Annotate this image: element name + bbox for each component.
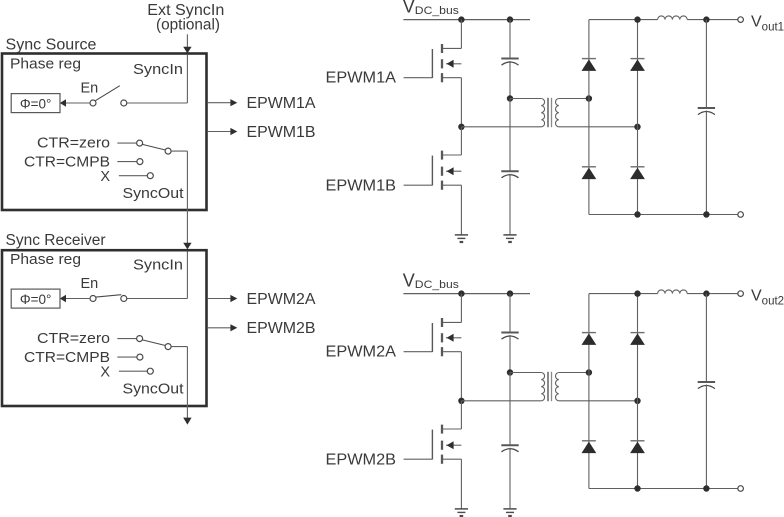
arrowhead EPWM1B (230, 128, 237, 135)
wire bridge left leg (588, 294, 590, 489)
terminal output negative (738, 212, 744, 218)
wire bridge right leg (637, 294, 639, 489)
channel dash body (441, 333, 443, 342)
wire Q-A source to center node (460, 78, 462, 127)
wire bridge right leg (637, 20, 639, 215)
wire Ext SyncIn drop (186, 34, 188, 48)
transformer T secondary winding (556, 373, 559, 401)
drain lead (443, 47, 461, 49)
svg-text:CTR=CMPB: CTR=CMPB (24, 154, 110, 170)
body-diode arrow (447, 334, 454, 342)
phase register box (11, 289, 60, 308)
wire center node to Q-B drain (460, 127, 462, 155)
node bottom rail / right leg (634, 211, 640, 217)
capacitor output filter (698, 107, 715, 109)
arrowhead SyncOut (to next) (183, 418, 191, 425)
node rail / high-side drain (458, 290, 464, 296)
inductor L output filter (658, 16, 688, 20)
svg-text:SyncOut: SyncOut (123, 381, 184, 397)
diode D3 (582, 440, 596, 442)
wire rail to divider cap C-top (509, 294, 511, 333)
wire inductor to output terminal (687, 293, 738, 295)
svg-text:Sync Receiver: Sync Receiver (6, 232, 106, 249)
body-diode arrow (447, 167, 454, 175)
transformer T secondary winding (556, 99, 559, 127)
svg-text:(optional): (optional) (156, 17, 220, 34)
channel dash source (441, 347, 443, 356)
wire output cap upper (705, 294, 707, 382)
svg-text:CTR=zero: CTR=zero (37, 331, 110, 347)
switch En pole contact (90, 100, 96, 106)
ground (transistor leg) (455, 234, 468, 236)
channel dash source (441, 455, 443, 464)
svg-text:X: X (100, 169, 110, 185)
contact X (147, 173, 153, 179)
diode D4 (631, 166, 645, 168)
svg-text:Vout2: Vout2 (751, 287, 784, 307)
diode D4 (631, 440, 645, 442)
channel dash body (441, 59, 443, 68)
wire CTR=zero lead (117, 338, 136, 340)
wire secondary top lead (559, 372, 589, 374)
switch SyncOut blade (on CTR=zero) (142, 144, 165, 150)
svg-text:EPWM1B: EPWM1B (326, 178, 397, 195)
wire output cap lower (705, 385, 707, 489)
svg-text:EPWM1A: EPWM1A (247, 95, 317, 112)
channel dash source (441, 181, 443, 190)
node secondary bottom / bridge right leg (634, 124, 640, 130)
wire Q-A source to center node (460, 352, 462, 401)
svg-text:Φ=0°: Φ=0° (20, 96, 52, 111)
wire EPWM2A gate lead (404, 351, 433, 353)
diode D3 (582, 166, 596, 168)
wire center node to Q-B drain (460, 401, 462, 429)
svg-text:En: En (81, 276, 99, 292)
svg-text:CTR=zero: CTR=zero (37, 136, 110, 152)
body-diode arrow (447, 441, 454, 449)
wire EPWM1B output (208, 131, 231, 133)
channel dash drain (441, 44, 443, 53)
wire SyncOut common lead (171, 346, 187, 348)
phase register box (11, 94, 60, 113)
node top rail / right leg (634, 290, 640, 296)
diode D1 (582, 332, 596, 334)
switch En fixed contact (121, 100, 127, 106)
contact CTR=CMPB (137, 159, 143, 165)
svg-text:EPWM1B: EPWM1B (247, 124, 316, 141)
wire divider caps midpoint upper (509, 61, 511, 99)
arrowhead into phase register (60, 99, 66, 106)
ground (transistor leg) (455, 508, 468, 510)
wire divider midpoint to lower cap (509, 99, 511, 172)
arrowhead Ext SyncIn into Sync Source (183, 47, 191, 54)
wire bridge left leg (588, 20, 590, 215)
switch En blade (closed) (96, 295, 121, 297)
wire output cap upper (705, 20, 707, 108)
svg-text:EPWM1A: EPWM1A (326, 70, 397, 87)
gate bar (431, 430, 433, 460)
transformer T primary winding (541, 373, 544, 401)
body lead (446, 170, 461, 172)
wire lower cap to ground (509, 174, 511, 235)
node bottom rail / output cap (703, 211, 709, 217)
wire SyncIn vertical (186, 55, 188, 103)
wire divider caps midpoint upper (509, 335, 511, 373)
wire primary top lead (510, 372, 541, 374)
switch SyncOut blade (on CTR=zero) (142, 340, 165, 346)
contact X (147, 368, 153, 374)
arrowhead EPWM2A (230, 295, 237, 302)
capacitor output filter (698, 381, 715, 383)
wire CTR=zero lead (117, 142, 136, 144)
wire EPWM2B output (208, 327, 231, 329)
terminal output positive (738, 17, 744, 23)
contact CTR=zero (137, 140, 143, 146)
svg-text:Phase reg: Phase reg (10, 56, 81, 72)
wire primary bottom lead (461, 400, 541, 402)
wire EPWM1A output (208, 102, 231, 104)
svg-text:Vout1: Vout1 (751, 13, 784, 33)
wire output cap lower (705, 111, 707, 215)
transformer core (547, 98, 549, 127)
contact SyncOut common (165, 148, 171, 154)
source lead (443, 351, 461, 353)
inductor L output filter (658, 290, 688, 294)
wire VDC bus rail (403, 19, 530, 21)
wire Q-B source to ground (460, 459, 462, 509)
wire bridge bottom rail (589, 214, 738, 216)
gate bar (431, 49, 433, 78)
svg-text:CTR=CMPB: CTR=CMPB (24, 350, 110, 366)
wire primary top lead (510, 98, 541, 100)
source lead (443, 77, 461, 79)
wire bridge top rail (589, 293, 658, 295)
transformer T primary winding (541, 99, 544, 127)
node divider midpoint / primary top (507, 369, 513, 375)
channel dash source (441, 73, 443, 82)
wire secondary bottom lead (559, 400, 638, 402)
drain lead (443, 154, 461, 156)
node secondary top / bridge left leg (586, 95, 592, 101)
diode D1 (582, 58, 596, 60)
wire En switch to phase register (66, 298, 91, 300)
node rail / high-side drain (458, 16, 464, 22)
wire Sync Receiver SyncOut down (186, 347, 188, 419)
svg-text:VDC_bus: VDC_bus (403, 0, 460, 17)
body-diode arrow (447, 60, 454, 68)
transformer core (547, 372, 549, 401)
svg-text:SyncIn: SyncIn (133, 258, 183, 274)
arrowhead SyncIn into Sync Receiver (183, 243, 191, 250)
terminal output negative (738, 486, 744, 492)
node output cap top (703, 290, 709, 296)
node rail / divider cap (507, 290, 513, 296)
body lead (446, 63, 461, 65)
svg-text:X: X (100, 365, 110, 381)
Sync Receiver block outline (2, 250, 207, 406)
svg-text:VDC_bus: VDC_bus (403, 271, 460, 292)
capacitor divider top (501, 332, 518, 334)
channel dash drain (441, 151, 443, 160)
node output cap top (703, 16, 709, 22)
wire CTR=CMPB lead (117, 161, 136, 163)
Sync Source block outline (2, 54, 207, 211)
diode D2 (631, 332, 645, 334)
wire SyncIn horizontal to switch (127, 298, 187, 300)
wire CTR=CMPB lead (117, 356, 136, 358)
wire X lead (119, 370, 147, 372)
switch En pole contact (90, 296, 96, 302)
wire SyncOut common lead (171, 150, 187, 152)
contact CTR=zero (137, 336, 143, 342)
capacitor divider bottom (501, 444, 518, 446)
wire rail to Q-A drain (460, 20, 462, 49)
wire inductor to output terminal (687, 19, 738, 21)
gate bar (431, 156, 433, 186)
channel dash drain (441, 425, 443, 434)
wire divider midpoint to lower cap (509, 373, 511, 446)
wire EPWM1B gate lead (404, 184, 433, 186)
source lead (443, 184, 461, 186)
svg-text:EPWM2A: EPWM2A (326, 344, 397, 361)
wire EPWM2A output (208, 298, 231, 300)
node primary return / Q-A source / Q-B drain (458, 124, 464, 130)
terminal output positive (738, 291, 744, 297)
node divider midpoint / primary top (507, 95, 513, 101)
svg-text:Phase reg: Phase reg (10, 252, 81, 268)
wire X lead (119, 175, 147, 177)
node top rail / right leg (634, 16, 640, 22)
wire En switch to phase register (66, 102, 91, 104)
ground (capacitor leg) (503, 234, 516, 236)
gate bar (431, 323, 433, 352)
wire SyncOut to Sync Receiver (186, 151, 188, 244)
arrowhead into phase register (60, 295, 66, 302)
wire rail to divider cap C-top (509, 20, 511, 59)
source lead (443, 458, 461, 460)
svg-text:Φ=0°: Φ=0° (20, 292, 52, 307)
wire SyncIn vertical (186, 251, 188, 298)
wire VDC bus rail (403, 293, 530, 295)
node primary return / Q-A source / Q-B drain (458, 398, 464, 404)
diode D2 (631, 58, 645, 60)
svg-text:En: En (81, 80, 99, 96)
wire secondary top lead (559, 98, 589, 100)
node secondary top / bridge left leg (586, 369, 592, 375)
wire EPWM2B gate lead (404, 458, 433, 460)
node rail / divider cap (507, 16, 513, 22)
capacitor divider bottom (501, 170, 518, 172)
body lead (446, 337, 461, 339)
drain lead (443, 321, 461, 323)
contact SyncOut common (165, 344, 171, 350)
wire bridge bottom rail (589, 488, 738, 490)
wire rail to Q-A drain (460, 294, 462, 323)
svg-text:Sync Source: Sync Source (6, 37, 97, 54)
channel dash body (441, 167, 443, 176)
wire primary bottom lead (461, 126, 541, 128)
body lead (446, 444, 461, 446)
channel dash body (441, 441, 443, 450)
wire lower cap to ground (509, 448, 511, 509)
arrowhead EPWM2B (230, 324, 237, 331)
wire secondary bottom lead (559, 126, 638, 128)
svg-text:EPWM2A: EPWM2A (247, 291, 317, 308)
svg-text:EPWM2B: EPWM2B (326, 452, 397, 469)
ground (capacitor leg) (503, 508, 516, 510)
node bottom rail / output cap (703, 485, 709, 491)
wire EPWM1A gate lead (404, 77, 433, 79)
node secondary bottom / bridge right leg (634, 398, 640, 404)
arrowhead EPWM1A (230, 99, 237, 106)
drain lead (443, 428, 461, 430)
channel dash drain (441, 318, 443, 327)
switch En blade (open) (95, 86, 119, 101)
wire SyncIn horizontal to switch (127, 102, 187, 104)
contact CTR=CMPB (137, 354, 143, 360)
svg-text:SyncOut: SyncOut (123, 186, 184, 202)
svg-text:SyncIn: SyncIn (133, 62, 183, 78)
capacitor divider top (501, 58, 518, 60)
svg-text:EPWM2B: EPWM2B (247, 320, 316, 337)
node bottom rail / right leg (634, 485, 640, 491)
wire Q-B source to ground (460, 185, 462, 235)
wire bridge top rail (589, 19, 658, 21)
switch En fixed contact (121, 296, 127, 302)
